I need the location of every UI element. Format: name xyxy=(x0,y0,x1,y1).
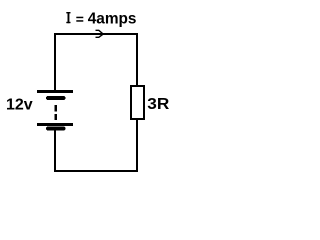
svg-text:4amps: 4amps xyxy=(88,11,137,28)
svg-text:12v: 12v xyxy=(6,96,33,113)
svg-text:3R: 3R xyxy=(147,96,169,113)
